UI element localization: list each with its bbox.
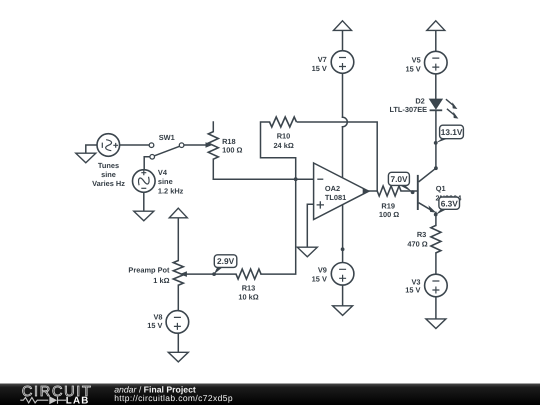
svg-text:7.0V: 7.0V <box>390 174 408 184</box>
svg-text:1.2 kHz: 1.2 kHz <box>158 186 184 195</box>
svg-text:Preamp Pot: Preamp Pot <box>128 266 170 275</box>
svg-text:http://circuitlab.com/c72xd5p: http://circuitlab.com/c72xd5p <box>114 393 233 403</box>
svg-text:LTL-307EE: LTL-307EE <box>389 105 427 114</box>
svg-text:15 V: 15 V <box>147 321 162 330</box>
svg-text:sine: sine <box>101 170 116 179</box>
svg-text:15 V: 15 V <box>312 64 327 73</box>
svg-text:10 kΩ: 10 kΩ <box>238 293 258 302</box>
svg-text:2.9V: 2.9V <box>217 256 235 266</box>
svg-text:OA2: OA2 <box>325 184 340 193</box>
svg-text:Tunes: Tunes <box>98 161 119 170</box>
svg-text:V5: V5 <box>412 55 421 64</box>
svg-text:13.1V: 13.1V <box>441 127 463 137</box>
svg-text:1 kΩ: 1 kΩ <box>153 276 169 285</box>
svg-text:24 kΩ: 24 kΩ <box>273 141 293 150</box>
svg-text:470 Ω: 470 Ω <box>407 239 427 248</box>
svg-text:100 Ω: 100 Ω <box>222 146 242 155</box>
svg-text:R3: R3 <box>417 230 426 239</box>
svg-text:sine: sine <box>158 177 173 186</box>
svg-text:Q1: Q1 <box>436 184 446 193</box>
svg-text:V4: V4 <box>158 168 168 177</box>
svg-text:100 Ω: 100 Ω <box>379 210 399 219</box>
svg-text:15 V: 15 V <box>405 286 420 295</box>
svg-text:LAB: LAB <box>66 396 90 405</box>
svg-text:V9: V9 <box>318 266 327 275</box>
svg-text:R18: R18 <box>222 137 236 146</box>
svg-text:Varies Hz: Varies Hz <box>92 179 125 188</box>
svg-text:6.3V: 6.3V <box>441 198 459 208</box>
svg-text:15 V: 15 V <box>312 274 327 283</box>
svg-text:SW1: SW1 <box>159 133 175 142</box>
svg-text:R10: R10 <box>277 132 291 141</box>
svg-text:TL081: TL081 <box>325 193 346 202</box>
svg-text:V7: V7 <box>318 55 327 64</box>
svg-text:R13: R13 <box>242 283 256 292</box>
svg-text:15 V: 15 V <box>405 64 420 73</box>
